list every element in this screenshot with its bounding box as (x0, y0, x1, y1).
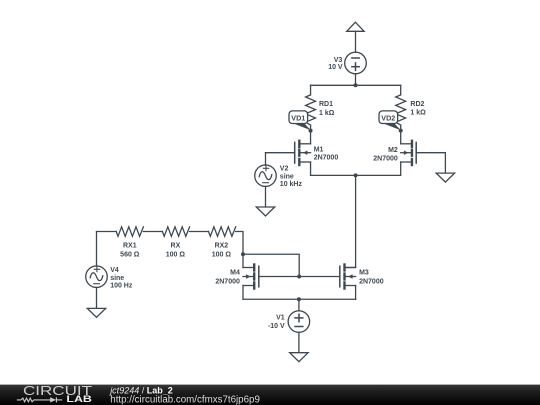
node VD2 junction dot (399, 129, 403, 133)
resistor RX1 (116, 227, 143, 237)
wire V3 to top rail (355, 74, 357, 86)
M1 labels (314, 146, 339, 161)
svg-text:2N7000: 2N7000 (373, 156, 398, 163)
resistor RX (162, 227, 189, 237)
RX labels (166, 242, 186, 258)
V2 labels (280, 165, 303, 188)
svg-text:1 kΩ: 1 kΩ (410, 110, 426, 117)
wire M2 gate to ground (416, 153, 445, 173)
wire arrow to V3 (355, 31, 357, 52)
V3 label (328, 57, 343, 71)
svg-text:RX1: RX1 (123, 242, 137, 249)
svg-text:RX: RX (171, 242, 181, 249)
wire V4 to RX1 (97, 231, 117, 233)
voltage source V1 (288, 299, 310, 352)
voltage probe flag VD2 (379, 111, 401, 130)
svg-text:VD1: VD1 (291, 113, 305, 122)
svg-text:100 Hz: 100 Hz (110, 283, 133, 290)
sine source V4 (86, 232, 108, 309)
svg-text:V4: V4 (110, 267, 119, 274)
tail rail wire (311, 174, 401, 176)
M2 labels (373, 147, 398, 163)
M4 labels (215, 270, 240, 286)
footer bar (0, 385, 540, 405)
svg-text:LAB: LAB (66, 394, 92, 405)
gate wire M4 to M3 (259, 276, 340, 278)
junction dot M4 drain branch (241, 252, 245, 256)
svg-text:2N7000: 2N7000 (359, 279, 384, 286)
transistor M3 2N7000 (340, 265, 356, 300)
bottom rail wire (243, 298, 356, 300)
wire tail to M3 drain (345, 175, 356, 267)
V1 labels (268, 315, 285, 330)
svg-text:RD2: RD2 (410, 101, 424, 108)
svg-text:RD1: RD1 (319, 101, 333, 108)
svg-text:-10 V: -10 V (268, 323, 285, 330)
RX1 labels (120, 242, 140, 258)
svg-text:10 V: 10 V (328, 64, 343, 71)
svg-text:RX2: RX2 (215, 242, 229, 249)
svg-text:sine: sine (280, 173, 294, 180)
svg-text:sine: sine (110, 275, 124, 282)
svg-text:http://circuitlab.com/cfmxs7t6: http://circuitlab.com/cfmxs7t6jp6p9 (110, 395, 260, 405)
svg-text:M1: M1 (314, 146, 324, 153)
voltage source V3 (345, 52, 367, 74)
ground under V2 (256, 207, 274, 216)
resistor RD2 (396, 85, 406, 130)
svg-text:1 kΩ: 1 kΩ (319, 110, 335, 117)
transistor M1 2N7000 (295, 131, 311, 176)
resistor RX2 (209, 227, 236, 237)
RX2 labels (212, 242, 232, 258)
svg-text:100 Ω: 100 Ω (166, 252, 186, 259)
transistor M4 2N7000 (243, 265, 259, 300)
junction dot bottom rail (297, 297, 301, 301)
svg-text:560 Ω: 560 Ω (120, 252, 140, 259)
ground under V4 (87, 308, 105, 317)
wire drain-gate tie (243, 254, 299, 276)
V4 labels (110, 267, 133, 290)
svg-text:2N7000: 2N7000 (314, 155, 339, 162)
wire RX2 to M4 drain (236, 232, 243, 268)
svg-text:10 kHz: 10 kHz (280, 181, 303, 188)
node VD1 junction dot (309, 129, 313, 133)
top rail wire (311, 84, 401, 86)
power flag arrow (top) (347, 22, 364, 31)
junction dot top rail (354, 83, 358, 87)
wire RX to RX2 (190, 231, 209, 233)
junction dot tail (354, 173, 358, 177)
svg-text:M2: M2 (388, 147, 398, 154)
voltage probe flag VD1 (289, 111, 311, 130)
svg-text:V1: V1 (276, 315, 285, 322)
svg-text:M3: M3 (359, 269, 369, 276)
transistor M2 2N7000 (401, 131, 417, 176)
RD2 labels (410, 101, 426, 117)
M3 labels (359, 269, 384, 285)
svg-text:M4: M4 (230, 270, 240, 277)
RD1 labels (319, 101, 335, 117)
junction dot gate wire (297, 275, 301, 279)
logo resistor-diode symbol (17, 397, 63, 402)
svg-text:100 Ω: 100 Ω (212, 252, 232, 259)
svg-text:V2: V2 (280, 165, 289, 172)
sine source V2 (255, 153, 295, 207)
svg-text:VD2: VD2 (381, 113, 395, 122)
wire RX1 to RX (143, 231, 162, 233)
ground under V1 (290, 353, 308, 362)
svg-text:2N7000: 2N7000 (215, 279, 240, 286)
CircuitLab logo wordmark (23, 383, 92, 398)
resistor RD1 (306, 85, 316, 130)
ground at M2 gate (436, 173, 454, 182)
